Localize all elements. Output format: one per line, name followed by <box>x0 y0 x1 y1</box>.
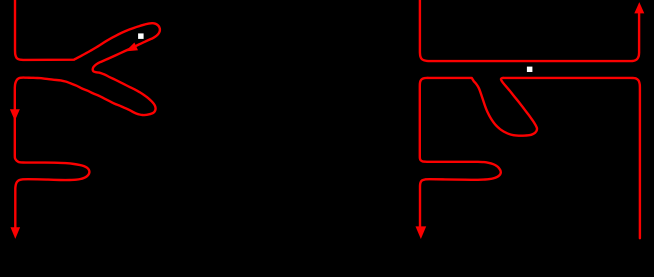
wire right lower trajectory <box>420 78 640 238</box>
arrowhead on left upper-loop return (points down-left) <box>126 43 139 52</box>
arrowhead terminal bottom-right-diagram (points down) <box>416 226 427 239</box>
arrowhead terminal bottom-left (points down) <box>11 227 21 239</box>
node equilibrium marker left (white square) <box>138 33 144 39</box>
arrowhead on left mid vertical (points down) <box>10 109 20 120</box>
wire left trajectory <box>15 0 160 227</box>
node equilibrium marker right (white square) <box>527 67 533 72</box>
wire right upper trajectory <box>420 0 639 61</box>
arrowhead terminal top-right (points up) <box>634 2 644 13</box>
